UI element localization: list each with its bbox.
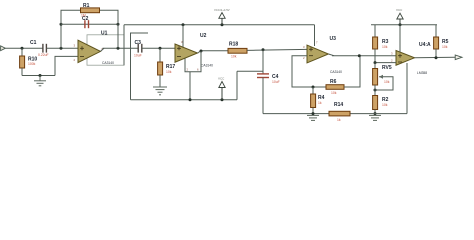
wire U2 power riser	[182, 25, 184, 47]
input terminal	[1, 46, 6, 51]
resistor R4	[311, 87, 325, 114]
potentiometer RV5	[373, 63, 393, 90]
svg-text:U2: U2	[200, 33, 207, 39]
wire U2 negative rail drop	[189, 72, 191, 100]
wire R1 loop	[61, 10, 81, 24]
node input/R10 junction	[21, 47, 24, 50]
svg-text:VCC: VCC	[218, 76, 225, 80]
resistor R6	[326, 79, 344, 95]
power flag VCC right	[396, 8, 403, 26]
resistor R17	[158, 48, 176, 87]
resistor R14	[329, 102, 350, 122]
resistor R2	[373, 85, 389, 114]
op-amp U1	[74, 31, 125, 66]
ground under R17	[153, 87, 167, 95]
output terminal	[455, 55, 462, 60]
wire C4 riser	[262, 50, 264, 74]
svg-text:U3: U3	[330, 36, 337, 42]
svg-text:10k: 10k	[442, 45, 448, 49]
node U3 output/R6	[358, 54, 361, 57]
node RV5 bottom	[374, 89, 377, 92]
wire U4 vcc riser	[399, 25, 401, 52]
bottom right rail	[263, 113, 329, 115]
svg-text:C1: C1	[30, 40, 37, 46]
capacitor C2	[82, 16, 89, 28]
node U2 vss tap	[189, 98, 192, 101]
svg-text:CA3140: CA3140	[330, 70, 342, 74]
svg-text:10k: 10k	[384, 80, 390, 84]
wire R10 bottom to inverting leg	[22, 75, 55, 77]
power flag VCC top	[214, 8, 230, 27]
node U2 output	[200, 50, 203, 53]
svg-text:R18: R18	[229, 41, 238, 47]
svg-text:VCC/2+4.5V: VCC/2+4.5V	[214, 8, 230, 12]
capacitor C3	[134, 40, 142, 57]
svg-text:CA3140: CA3140	[201, 64, 213, 68]
op-amp U4:A	[391, 42, 431, 75]
wire input to C1	[5, 47, 43, 49]
capacitor C4	[257, 74, 280, 84]
resistor R18	[228, 41, 247, 58]
svg-text:R14: R14	[334, 102, 343, 108]
wire U3 power riser	[314, 25, 316, 46]
svg-text:10k: 10k	[382, 103, 388, 107]
ground under R2	[369, 115, 381, 120]
resistor R10	[20, 48, 38, 75]
svg-text:LM358: LM358	[417, 71, 427, 75]
node U2 power tap	[182, 23, 185, 26]
svg-text:U1: U1	[101, 31, 108, 37]
node feedback tap	[60, 47, 63, 50]
resistor R5	[434, 25, 449, 58]
wire C3 to U2	[142, 47, 175, 49]
top power rail	[124, 24, 315, 26]
node R4 tap	[312, 86, 315, 89]
svg-text:0.22uF: 0.22uF	[38, 53, 49, 57]
wire U1 inverting input	[55, 56, 78, 75]
node R4 ground	[312, 112, 315, 115]
svg-text:10k: 10k	[166, 70, 172, 74]
power flag VCC mid	[218, 76, 225, 101]
wire U4 vss drop	[406, 63, 408, 114]
svg-text:1k: 1k	[318, 101, 322, 105]
wire top rail corner to U1 box	[123, 25, 125, 65]
svg-text:C4: C4	[272, 74, 279, 80]
ground stage1	[34, 76, 46, 86]
svg-text:CA3140: CA3140	[102, 61, 114, 65]
node feedback bottom left	[60, 23, 63, 26]
op-amp U3	[303, 36, 342, 74]
svg-text:1M: 1M	[81, 14, 86, 18]
svg-text:10k: 10k	[331, 91, 337, 95]
op-amp U2	[175, 33, 213, 68]
svg-text:U4:A: U4:A	[419, 42, 431, 48]
svg-text:RV5: RV5	[382, 65, 392, 71]
wire R6 to output riser	[344, 56, 360, 87]
node R2 ground	[374, 112, 377, 115]
wire U3 inverting loop	[292, 56, 326, 87]
wire U4 inverting input	[375, 62, 396, 64]
wire rail stub to C4 top	[237, 70, 263, 72]
node C4 tap	[262, 48, 265, 51]
svg-text:100k: 100k	[28, 62, 36, 66]
wire feedback bottom	[61, 23, 118, 25]
wire U4 output	[415, 56, 456, 59]
node R3/RV5	[374, 61, 377, 64]
ground under R4	[307, 115, 319, 120]
wire C4 to bottom rail	[262, 78, 264, 114]
wire U2 feedback loop	[185, 51, 201, 72]
resistor R3	[373, 25, 389, 63]
node feedback bottom right	[117, 23, 120, 26]
svg-text:10k: 10k	[382, 45, 388, 49]
node output/R5	[435, 56, 438, 59]
wire feedback right riser	[117, 24, 119, 48]
svg-text:10uF: 10uF	[134, 53, 142, 57]
svg-text:VCC: VCC	[396, 8, 403, 12]
node R17 tap	[159, 47, 162, 50]
wire U2 output	[198, 51, 202, 53]
svg-text:1k: 1k	[337, 118, 341, 122]
capacitor C1	[30, 40, 49, 57]
top right rail	[371, 24, 437, 26]
bottom mid rail	[131, 99, 238, 101]
wire U3 output	[328, 54, 334, 56]
wire C1 to U1	[46, 47, 78, 49]
wire feedback left riser	[60, 24, 62, 48]
svg-text:10uF: 10uF	[272, 80, 280, 84]
node U1 output/feedback	[117, 47, 120, 50]
wire R18 to U3	[247, 49, 307, 50]
svg-text:R1: R1	[83, 3, 90, 9]
wire U1 output	[101, 48, 105, 51]
svg-text:R6: R6	[330, 79, 337, 85]
svg-text:10k: 10k	[231, 55, 237, 59]
node ground tap stage1	[39, 74, 42, 77]
resistor R1	[81, 3, 100, 18]
wire U1 lower power riser	[131, 33, 149, 100]
